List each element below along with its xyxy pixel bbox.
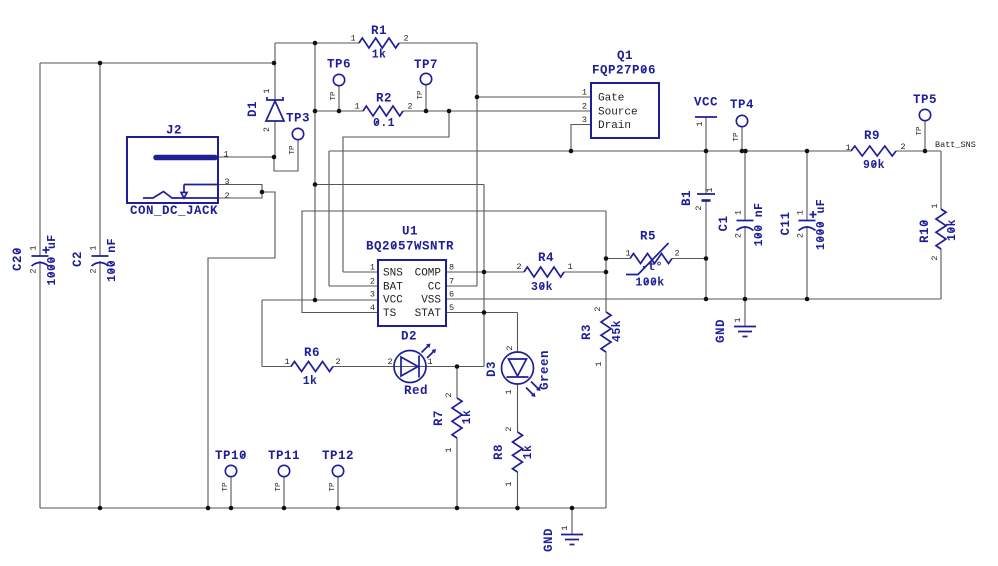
svg-text:STAT: STAT — [415, 308, 442, 320]
wire D1 top lead — [274, 43, 276, 100]
wire TS column x=606 upper — [605, 211, 607, 312]
svg-text:2: 2 — [516, 262, 521, 272]
svg-text:1: 1 — [560, 525, 570, 530]
svg-text:D2: D2 — [401, 330, 417, 344]
svg-text:R8: R8 — [492, 444, 506, 460]
wire COMP branch column x=484 — [483, 185, 485, 367]
svg-text:B1: B1 — [680, 190, 694, 206]
svg-text:R9: R9 — [864, 129, 880, 143]
svg-text:2: 2 — [582, 102, 587, 112]
wire VSS rail — [446, 298, 941, 300]
testpoint TP10 — [215, 449, 247, 492]
wire R1 row left lead — [275, 42, 359, 44]
svg-text:GND: GND — [714, 319, 728, 343]
svg-text:COMP: COMP — [415, 268, 442, 280]
resistor R3 — [580, 306, 624, 366]
wire R5 right lead — [672, 258, 706, 260]
svg-text:C2: C2 — [71, 251, 85, 267]
svg-text:1: 1 — [625, 249, 630, 259]
svg-text:7: 7 — [449, 277, 454, 287]
svg-text:1: 1 — [930, 203, 940, 208]
svg-text:1: 1 — [695, 121, 705, 126]
wire B1 top lead — [705, 151, 707, 194]
testpoint TP6 — [327, 58, 351, 101]
svg-text:1: 1 — [594, 361, 604, 366]
wire R2 left lead — [315, 110, 363, 112]
svg-text:Red: Red — [404, 384, 428, 398]
testpoint TP3 — [286, 112, 310, 155]
wire gate column x=477 — [476, 43, 478, 286]
svg-text:2: 2 — [262, 127, 272, 132]
wire TP4 stub — [741, 127, 743, 152]
testpoint TP7 — [414, 58, 438, 100]
svg-text:J2: J2 — [166, 124, 182, 138]
svg-text:TP: TP — [916, 126, 924, 136]
svg-text:2: 2 — [407, 102, 412, 112]
svg-text:Gate: Gate — [598, 93, 624, 105]
svg-text:1k: 1k — [522, 445, 535, 460]
svg-text:1: 1 — [370, 263, 375, 273]
svg-text:2: 2 — [593, 306, 603, 311]
wire VCC rail left part — [329, 150, 851, 152]
wire U1 COMP pin8 lead — [446, 271, 524, 273]
svg-text:VCC: VCC — [383, 295, 403, 307]
wire C2 column upper — [99, 63, 101, 256]
capacitor C20 — [11, 234, 59, 285]
svg-text:R5: R5 — [640, 230, 656, 244]
wire Q1 gate — [477, 96, 591, 98]
svg-text:TP11: TP11 — [268, 449, 300, 463]
resistor R2 — [354, 92, 412, 131]
wire TP7 stub — [425, 85, 427, 112]
wire B1 bottom lead — [705, 201, 707, 299]
svg-text:VSS: VSS — [421, 295, 441, 307]
wire R6 left lead — [262, 366, 291, 368]
wire U1 BAT column — [328, 151, 330, 286]
wire VIN column x=315 — [314, 43, 316, 300]
svg-text:2: 2 — [89, 268, 99, 273]
capacitor C11 — [779, 199, 828, 250]
LED D3 — [485, 345, 552, 397]
wire VIN top-left horizontal — [40, 62, 274, 64]
wire GND stub right — [744, 299, 746, 326]
svg-text:1: 1 — [354, 102, 359, 112]
wire TP11 stub — [283, 477, 285, 509]
wire C1 bottom lead — [744, 226, 746, 299]
wire D3 bottom lead — [517, 384, 519, 432]
svg-text:R4: R4 — [538, 251, 554, 265]
wire U1 BAT pin2 — [329, 285, 378, 287]
wire TP3 stub loop — [274, 140, 298, 172]
svg-text:GND: GND — [542, 528, 556, 552]
wire R1 row right lead to corner — [399, 42, 477, 44]
svg-text:TS: TS — [383, 308, 397, 320]
testpoint TP12 — [322, 449, 354, 492]
svg-text:TP7: TP7 — [414, 58, 438, 72]
svg-text:1: 1 — [796, 210, 806, 215]
transistor Q1 — [582, 49, 659, 138]
wire U1 CC pin7 — [446, 285, 477, 287]
svg-text:2: 2 — [796, 233, 806, 238]
svg-text:TP: TP — [330, 91, 338, 101]
svg-text:2: 2 — [444, 392, 454, 397]
svg-text:U1: U1 — [402, 225, 418, 239]
wire TP10 stub — [230, 477, 232, 509]
svg-text:CON_DC_JACK: CON_DC_JACK — [130, 204, 218, 218]
testpoint TP11 — [268, 449, 300, 492]
svg-text:2: 2 — [930, 255, 940, 260]
net label Batt_SNS — [935, 140, 976, 150]
svg-text:BAT: BAT — [383, 282, 403, 294]
wire U1 SNS pin1 — [343, 271, 378, 273]
svg-text:Batt_SNS: Batt_SNS — [935, 140, 976, 150]
resistor R6 — [284, 346, 340, 388]
wire R10 top lead — [940, 151, 942, 209]
svg-text:100k: 100k — [635, 277, 664, 290]
svg-text:100 nF: 100 nF — [106, 238, 119, 282]
wire C2 column lower — [99, 261, 101, 508]
wire VCC rail right part — [896, 150, 941, 152]
svg-text:R7: R7 — [432, 410, 446, 426]
svg-text:3: 3 — [582, 115, 587, 125]
svg-text:2: 2 — [29, 268, 39, 273]
wire R10 bottom lead — [940, 249, 942, 299]
wire Q1 drain to rail — [571, 125, 591, 152]
wire D1 bottom lead — [274, 121, 276, 157]
svg-text:Green: Green — [538, 350, 552, 390]
ground GND bottom — [542, 525, 583, 552]
svg-text:45k: 45k — [611, 320, 624, 342]
svg-text:FQP27P06: FQP27P06 — [592, 64, 656, 78]
wire J2 node down to bottom rail — [208, 192, 275, 508]
wire C11 bottom lead — [806, 226, 808, 299]
capacitor C1 — [717, 203, 766, 247]
svg-text:1: 1 — [504, 481, 514, 486]
svg-text:TP: TP — [329, 482, 337, 492]
svg-text:1: 1 — [733, 317, 743, 322]
svg-text:2: 2 — [370, 277, 375, 287]
svg-text:R10: R10 — [918, 219, 932, 243]
thermistor R5 — [625, 230, 679, 290]
svg-text:5: 5 — [449, 303, 454, 313]
svg-text:2: 2 — [224, 191, 229, 201]
svg-text:1: 1 — [705, 187, 715, 192]
wire through D2 — [394, 366, 426, 368]
svg-text:-t°: -t° — [641, 261, 663, 274]
wire R7 bottom lead — [456, 438, 458, 508]
svg-text:R6: R6 — [304, 346, 320, 360]
wire C1 top lead — [744, 151, 746, 221]
svg-text:Source: Source — [598, 107, 638, 119]
capacitor C2 — [71, 238, 119, 282]
power VCC — [694, 96, 718, 127]
svg-text:4: 4 — [370, 303, 375, 313]
svg-text:1: 1 — [427, 357, 432, 367]
wire GND stub bottom — [571, 508, 573, 534]
wire J2 pin3 — [218, 185, 262, 193]
svg-text:C20: C20 — [11, 247, 25, 271]
resistor R10 — [918, 203, 959, 260]
svg-text:100 nF: 100 nF — [753, 203, 766, 247]
wire C20 column upper — [39, 63, 41, 256]
svg-text:TP12: TP12 — [322, 449, 354, 463]
wire J2 pin1 to D1 node — [218, 156, 274, 158]
svg-text:1: 1 — [350, 34, 355, 44]
svg-text:Drain: Drain — [598, 120, 631, 132]
svg-text:3: 3 — [370, 290, 375, 300]
diode D1 — [246, 88, 284, 132]
wire U1 STAT pin5 — [446, 312, 518, 314]
testpoint TP5 — [913, 93, 937, 136]
svg-text:1: 1 — [582, 88, 587, 98]
svg-text:TP: TP — [222, 482, 230, 492]
resistor R1 — [350, 24, 408, 62]
battery B1 — [680, 187, 715, 210]
svg-text:3: 3 — [224, 177, 229, 187]
wire bottom ground rail — [40, 507, 606, 509]
wire VCC symbol stub — [705, 117, 707, 151]
svg-text:TP4: TP4 — [730, 98, 754, 112]
svg-text:2: 2 — [734, 233, 744, 238]
svg-text:CC: CC — [428, 282, 442, 294]
svg-text:D1: D1 — [246, 101, 260, 117]
svg-text:1k: 1k — [372, 49, 387, 62]
wire D2 to STAT column — [426, 366, 484, 368]
svg-text:2: 2 — [504, 426, 514, 431]
svg-text:Q1: Q1 — [617, 49, 633, 63]
wire TP6 stub — [338, 86, 340, 112]
svg-text:1: 1 — [845, 143, 850, 153]
svg-text:C1: C1 — [717, 215, 731, 231]
wire R8 bottom lead — [517, 472, 519, 508]
svg-text:TP: TP — [733, 132, 741, 142]
svg-text:1: 1 — [444, 447, 454, 452]
svg-text:1k: 1k — [303, 375, 318, 388]
svg-text:2: 2 — [387, 357, 392, 367]
svg-text:TP3: TP3 — [286, 112, 310, 126]
wire R7 top lead — [456, 367, 458, 399]
svg-text:TP6: TP6 — [327, 58, 351, 72]
svg-text:VCC: VCC — [694, 96, 718, 110]
resistor R7 — [432, 392, 474, 452]
wire U1 VCC pin3 — [262, 299, 378, 301]
svg-text:2: 2 — [694, 205, 704, 210]
wire R2 right lead to Q1 source — [403, 110, 591, 112]
ground GND right — [714, 317, 756, 343]
wire TP5 stub — [924, 121, 926, 152]
svg-text:2: 2 — [505, 345, 515, 350]
wire SNS jog from R2 right — [343, 111, 449, 272]
svg-text:SNS: SNS — [383, 268, 403, 280]
svg-text:1: 1 — [567, 262, 572, 272]
svg-text:1k: 1k — [461, 410, 474, 425]
svg-text:8: 8 — [449, 263, 454, 273]
svg-text:BQ2057WSNTR: BQ2057WSNTR — [366, 240, 454, 254]
svg-text:1: 1 — [262, 88, 272, 93]
svg-text:1: 1 — [29, 245, 39, 250]
svg-text:TP: TP — [289, 145, 297, 155]
svg-text:1: 1 — [223, 150, 228, 160]
svg-text:D3: D3 — [485, 361, 499, 377]
svg-text:TP: TP — [417, 90, 425, 100]
svg-text:2: 2 — [403, 34, 408, 44]
wire J2 pin2 — [218, 192, 262, 198]
svg-text:1: 1 — [734, 210, 744, 215]
resistor R8 — [492, 426, 535, 486]
svg-text:1: 1 — [504, 389, 514, 394]
wire U1 TS pin4 loop — [302, 211, 606, 313]
svg-text:6: 6 — [449, 290, 454, 300]
wire COMP branch horizontal y=184 — [315, 184, 484, 186]
connector J2 — [127, 124, 230, 219]
wire R5 left lead — [606, 258, 630, 260]
svg-text:2: 2 — [674, 249, 679, 259]
svg-text:2: 2 — [335, 357, 340, 367]
resistor R9 — [845, 129, 905, 172]
resistor R4 — [516, 251, 572, 294]
svg-text:R1: R1 — [371, 24, 387, 38]
wire C11 top lead — [806, 151, 808, 221]
wire C20 column lower — [39, 261, 41, 508]
svg-text:TP: TP — [275, 482, 283, 492]
wire R3 bottom lead — [605, 352, 607, 508]
LED D2 — [387, 330, 436, 399]
svg-text:TP5: TP5 — [913, 93, 937, 107]
testpoint TP4 — [730, 98, 754, 142]
svg-text:R3: R3 — [580, 324, 594, 340]
wire D3 top lead — [517, 313, 519, 353]
wire VCC pin column x=262 — [261, 300, 263, 367]
wire R4 right lead — [564, 271, 606, 273]
svg-text:1: 1 — [284, 357, 289, 367]
svg-text:1: 1 — [89, 245, 99, 250]
wire R6 right lead to D2 — [333, 366, 394, 368]
IC U1 — [366, 225, 454, 327]
svg-text:2: 2 — [900, 142, 905, 152]
svg-text:R2: R2 — [376, 92, 392, 106]
wire TP12 stub — [337, 477, 339, 509]
svg-text:C11: C11 — [779, 211, 793, 235]
